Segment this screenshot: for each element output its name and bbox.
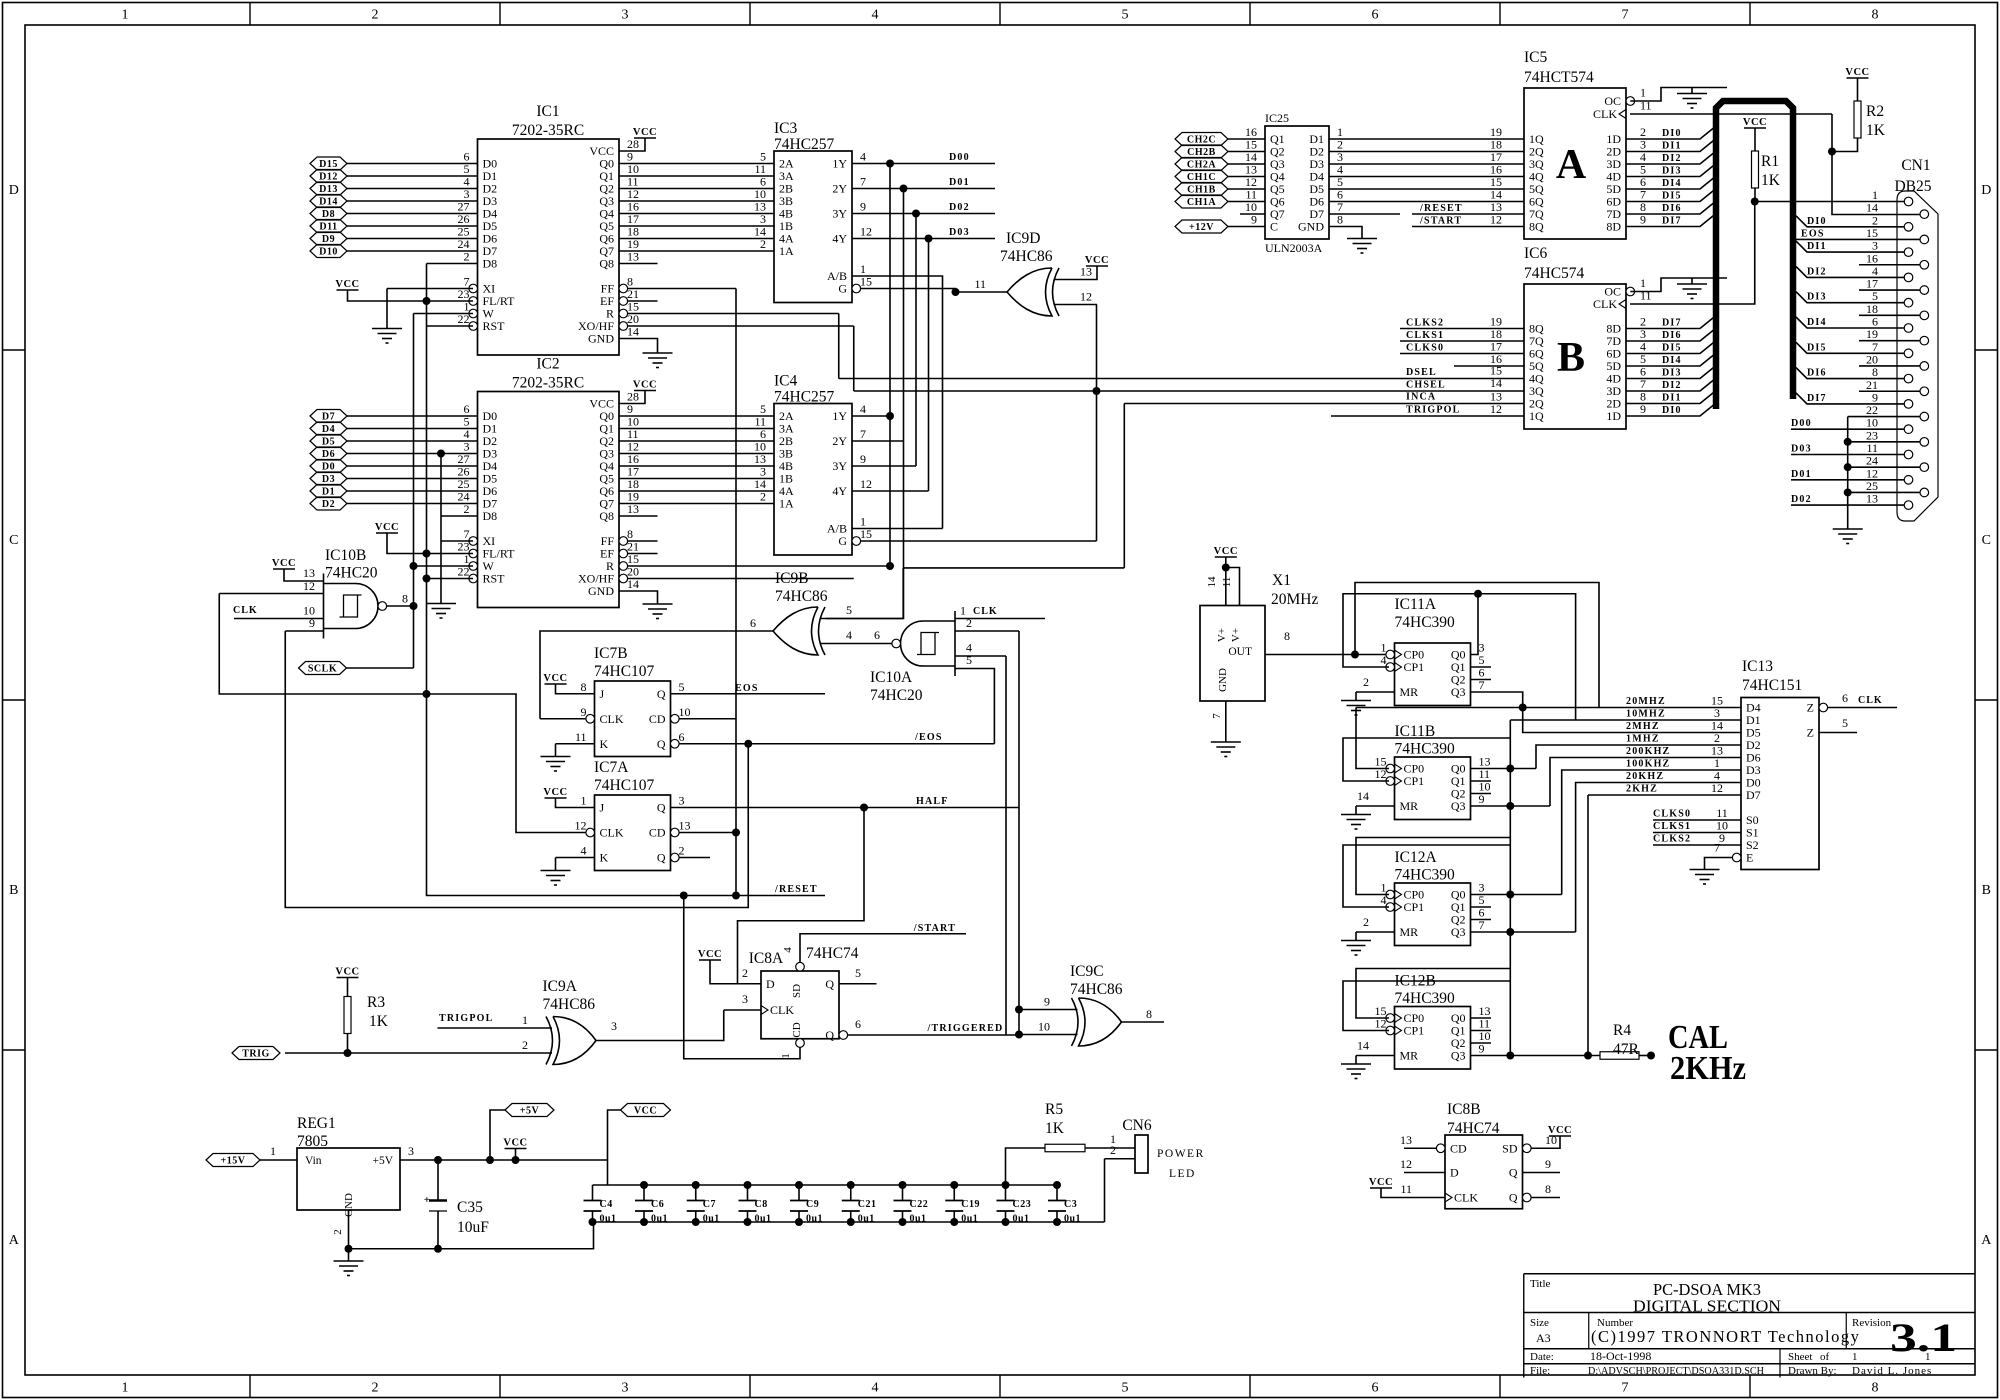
svg-text:CLKS0: CLKS0 [1406, 343, 1444, 354]
wire SCLK [347, 667, 414, 669]
wire IC10A pin1 CLK [955, 618, 1045, 620]
wire IC10B pin12 [219, 593, 323, 595]
svg-text:DIGITAL SECTION: DIGITAL SECTION [1633, 1297, 1781, 1316]
net label /START at IC5 [1419, 216, 1462, 227]
svg-text:D13: D13 [319, 184, 338, 195]
wire IC6 4D bus entry [1626, 366, 1716, 379]
IC6 pins [1529, 276, 1682, 423]
svg-text:Sheet: Sheet [1788, 1351, 1812, 1363]
IC8B pins [1400, 1133, 1557, 1205]
ground at IC2 GND [643, 604, 673, 619]
wire IC5 2D bus entry DI1 [1626, 139, 1716, 152]
IC9C labels [1070, 963, 1123, 998]
svg-text:1: 1 [122, 1381, 129, 1396]
svg-text:CLK: CLK [1858, 695, 1883, 706]
net label D02 at DB25 [1791, 494, 1812, 505]
junction cap top C21 [847, 1181, 855, 1189]
net flag D15 [310, 157, 347, 170]
svg-text:IC8A: IC8A [749, 950, 784, 967]
wire CLKS0 to IC13 [1653, 819, 1741, 821]
net flag D3 [310, 472, 347, 485]
wire IC5 8D bus entry DI7 [1626, 214, 1716, 227]
wire IC9C output [1122, 1021, 1165, 1023]
svg-text:D: D [1450, 1166, 1459, 1180]
junction W IC2 [410, 562, 418, 570]
junction FL/RT IC1 [423, 297, 431, 305]
svg-text:CLKS1: CLKS1 [1406, 330, 1444, 341]
junction 2KHZ R4 [1584, 1052, 1592, 1060]
svg-text:0u1: 0u1 [651, 1214, 668, 1225]
junction pin24 ground [1844, 463, 1852, 471]
svg-text:14: 14 [1490, 376, 1502, 390]
net label CLK [233, 605, 258, 616]
R1 labels [1761, 153, 1781, 189]
junction Q0 rail [1474, 590, 1482, 598]
svg-text:IC5: IC5 [1524, 49, 1548, 66]
wire IC12A MR [1356, 931, 1395, 933]
svg-text:IC6: IC6 [1524, 245, 1548, 262]
svg-text:CH1B: CH1B [1187, 185, 1216, 196]
wire IC11A Q0 up to rail [1471, 594, 1479, 655]
svg-text:1Q: 1Q [1529, 409, 1544, 423]
svg-text:12: 12 [860, 225, 872, 239]
net label DI2 [1807, 266, 1827, 277]
wire D02 to DB25 pin13 [1791, 504, 1904, 506]
svg-text:DI7: DI7 [1807, 393, 1827, 404]
svg-text:C35: C35 [457, 1199, 483, 1216]
wire IC8B Q stub [1523, 1172, 1561, 1174]
junction cap top C3 [1053, 1181, 1061, 1189]
IC4 labels [774, 373, 835, 406]
IC FIFO IC1 7202-35RC body [478, 139, 620, 355]
wire bus exit DI6 to DB25 [1796, 368, 1904, 379]
svg-text:4: 4 [872, 8, 879, 23]
IC13 labels [1742, 658, 1802, 694]
svg-text:Q: Q [825, 977, 834, 991]
wire 20MHz rail over IC11A [1355, 583, 1599, 708]
wire IC9D output to G chain [956, 291, 1008, 293]
junction RST IC2 [423, 575, 431, 583]
svg-text:/RESET: /RESET [1419, 203, 1463, 214]
svg-text:2KHz: 2KHz [1670, 1050, 1746, 1087]
wire IC2 Q1 to IC4 [619, 428, 774, 430]
svg-text:12: 12 [1711, 781, 1723, 795]
svg-text:D01: D01 [949, 177, 970, 188]
svg-text:0u1: 0u1 [1064, 1214, 1081, 1225]
svg-text:CLK: CLK [1593, 297, 1617, 311]
svg-text:DI1: DI1 [1662, 141, 1682, 152]
svg-text:CN1: CN1 [1901, 157, 1930, 174]
svg-text:1: 1 [1852, 1351, 1858, 1363]
svg-text:A: A [9, 1233, 20, 1248]
wire TRIGPOL to IC9A pin1 [438, 1027, 553, 1029]
svg-text:0u1: 0u1 [858, 1214, 875, 1225]
svg-text:47R: 47R [1613, 1041, 1640, 1058]
svg-text:0u1: 0u1 [961, 1214, 978, 1225]
svg-text:DI1: DI1 [1662, 393, 1682, 404]
XOR gate IC9D 74HC86 [1007, 268, 1059, 316]
wire VCC to IC2 FL/RT [387, 533, 473, 554]
net label INCA [1406, 392, 1436, 403]
junction Q3 IC12A [1506, 928, 1514, 936]
svg-text:74HC86: 74HC86 [543, 996, 596, 1013]
IC10B labels [325, 547, 378, 582]
svg-text:DI2: DI2 [1662, 380, 1682, 391]
svg-text:VCC: VCC [1369, 1177, 1393, 1188]
svg-text:D01: D01 [1791, 469, 1812, 480]
IC10A pin numbers [874, 604, 972, 668]
IC3 pins [754, 150, 872, 296]
wire /START to IC5 8Q [1412, 226, 1524, 228]
svg-text:9: 9 [860, 452, 866, 466]
svg-text:D9: D9 [322, 234, 335, 245]
ground decoupling rail bottom [594, 1221, 1105, 1223]
wire IC12A Q3 [1471, 931, 1576, 933]
svg-text:10: 10 [679, 705, 691, 719]
svg-text:David L. Jones: David L. Jones [1852, 1365, 1932, 1377]
wire IC9B pin4 from IC10A [820, 643, 892, 645]
IC mux IC3 74HC257 body [774, 151, 852, 303]
IC5 pins [1529, 86, 1682, 234]
IC25 pins [1245, 125, 1343, 234]
wire IC12B MR ground [1355, 1056, 1357, 1065]
wire CLK to IC10B pin10 [234, 618, 324, 620]
IC9D labels [1000, 230, 1053, 265]
svg-text:6: 6 [679, 730, 685, 744]
svg-text:D02: D02 [1791, 494, 1812, 505]
svg-text:/RESET: /RESET [774, 884, 818, 895]
svg-text:Revision: Revision [1852, 1317, 1892, 1329]
svg-text:MR: MR [1400, 925, 1419, 939]
svg-text:2: 2 [1363, 675, 1369, 689]
svg-text:DI5: DI5 [1662, 343, 1682, 354]
svg-text:OC: OC [1604, 94, 1621, 108]
svg-text:CP1: CP1 [1404, 774, 1425, 788]
wire D4 to IC2 D1 [347, 428, 478, 430]
IC counter IC12A 74HC390 body [1395, 883, 1471, 946]
VCC symbol at IC8B SD [1548, 1125, 1572, 1136]
net label CAL 2KHz [1668, 1019, 1746, 1087]
svg-text:4Y: 4Y [832, 232, 847, 246]
svg-text:C7: C7 [703, 1199, 716, 1210]
wire IC25 D2 to IC5 [1329, 151, 1524, 153]
wire bus exit DI2 to DB25 [1796, 266, 1904, 277]
net label DI0 [1807, 216, 1827, 227]
svg-text:Q3: Q3 [1451, 799, 1466, 813]
wire D03 to DB25 pin11 [1791, 454, 1904, 456]
svg-text:CD: CD [1450, 1141, 1467, 1155]
svg-text:Q3: Q3 [1451, 925, 1466, 939]
svg-text:1A: 1A [779, 497, 794, 511]
junction cap bottom C19 [950, 1218, 958, 1226]
svg-text:MR: MR [1400, 799, 1419, 813]
wire IC10B pin9 [285, 630, 323, 632]
wire IC8A Q stub [839, 983, 877, 985]
wire ground rail riser [349, 1222, 594, 1249]
net label /START [913, 923, 956, 934]
svg-text:DI6: DI6 [1662, 203, 1682, 214]
svg-text:7805: 7805 [297, 1133, 328, 1150]
IC11B pins [1357, 755, 1491, 814]
svg-text:2: 2 [332, 1229, 344, 1235]
wire D5 to IC2 D2 [347, 440, 478, 442]
svg-text:R2: R2 [1866, 103, 1884, 120]
svg-text:6: 6 [750, 616, 756, 630]
svg-text:Q: Q [1509, 1166, 1518, 1180]
IC9B pin numbers [750, 603, 852, 642]
XOR gate IC9B 74HC86 [773, 607, 825, 655]
wire HALF branch down [738, 808, 865, 984]
ground at IC12B MR [1341, 1064, 1371, 1079]
svg-text:74HC86: 74HC86 [775, 588, 828, 605]
svg-text:0u1: 0u1 [703, 1214, 720, 1225]
net flag CH1A [1175, 195, 1228, 208]
junction RST chain on loop [423, 690, 431, 698]
svg-text:11: 11 [575, 730, 587, 744]
wire D01 to DB25 pin12 [1791, 479, 1904, 481]
wire IC25 D6 to IC5 [1329, 201, 1524, 203]
svg-text:4: 4 [846, 628, 852, 642]
wire W net vertical [413, 314, 415, 669]
svg-text:Q: Q [657, 687, 666, 701]
junction cap bottom C23 [1002, 1218, 1010, 1226]
wire IC12A Q2 stub [1471, 919, 1492, 921]
wire IC11B Q1 stub [1471, 780, 1492, 782]
ground at IC6 OC [1677, 284, 1707, 299]
wire IC10A pin4 [955, 655, 1006, 657]
svg-text:TRIGPOL: TRIGPOL [439, 1013, 494, 1024]
net label CLKS0 [1406, 340, 1502, 354]
svg-text:Vin: Vin [305, 1155, 322, 1167]
wire IC5 CLK to R2 chain [1630, 113, 1832, 115]
wire IC11A Q2 stub [1471, 679, 1492, 681]
wire XI to ground [386, 289, 388, 329]
svg-text:20MHz: 20MHz [1271, 591, 1318, 608]
wire IC13 Z CLK [1828, 707, 1897, 709]
svg-text:2Y: 2Y [832, 434, 847, 448]
CN1 pin numbers [1866, 188, 1878, 506]
svg-text:IC13: IC13 [1742, 658, 1773, 675]
IC11B labels [1395, 723, 1456, 758]
junction VCC rail [512, 1156, 520, 1164]
svg-text:TRIGPOL: TRIGPOL [1406, 405, 1461, 416]
ground at IC1 GND [643, 353, 673, 368]
net flag D7 [310, 410, 347, 423]
net label TRIGPOL at IC9A [439, 1013, 494, 1024]
wire CHSEL vertical [853, 326, 855, 391]
svg-text:0u1: 0u1 [806, 1214, 823, 1225]
net flag +12V [1175, 220, 1228, 233]
svg-text:G: G [838, 534, 847, 548]
svg-text:D03: D03 [1791, 444, 1812, 455]
wire pins22-25 ground chain [1847, 417, 1849, 529]
svg-text:74HCT574: 74HCT574 [1524, 69, 1594, 86]
net flag CH2A [1175, 158, 1228, 171]
wire DB25 pin20 stub [1859, 365, 1920, 367]
svg-text:DI4: DI4 [1807, 317, 1827, 328]
wire IC7A Q HALF net [671, 807, 1020, 809]
svg-text:VCC: VCC [634, 1106, 657, 1117]
net flag D10 [310, 245, 347, 258]
junction Q3 IC11B [1506, 802, 1514, 810]
wire D6 to IC2 D3 [347, 453, 478, 455]
IC driver IC25 ULN2003A body [1265, 126, 1329, 239]
wire bus exit DI3 to DB25 [1796, 292, 1904, 303]
svg-text:A: A [1556, 142, 1587, 188]
junction cap bottom C22 [899, 1218, 907, 1226]
wire IC7B Q EOS [671, 693, 826, 695]
net flag D12 [310, 170, 347, 183]
svg-text:9: 9 [1044, 995, 1050, 1009]
VCC symbol at IC2 FL/RT [375, 522, 399, 533]
net label EOS [735, 683, 759, 694]
wire IC5 1D bus entry DI0 [1626, 126, 1716, 139]
wire 20MHZ down to IC11B CP0 [1356, 708, 1389, 769]
svg-text:VCC: VCC [335, 279, 359, 290]
wire IC6 5Q stub [1454, 365, 1524, 367]
VCC symbol at IC7A J [543, 787, 567, 798]
net label D00 [949, 152, 970, 163]
svg-text:DI7: DI7 [1662, 318, 1682, 329]
wire IC6 6D bus entry [1626, 341, 1716, 354]
wire D8/RST chain down to /RESET net [427, 264, 826, 896]
svg-text:18-Oct-1998: 18-Oct-1998 [1590, 1349, 1651, 1363]
wire CH1B to IC25 [1228, 188, 1265, 190]
svg-text:10: 10 [1038, 1020, 1050, 1034]
net label CLKS0 at IC13 [1653, 806, 1728, 820]
svg-text:C: C [1982, 533, 1991, 548]
wire IC9D pin12 [1054, 304, 1097, 306]
svg-text:D02: D02 [949, 202, 970, 213]
svg-text:14: 14 [1206, 576, 1218, 588]
wire IC11A Q1 stub [1471, 666, 1492, 668]
svg-text:7: 7 [860, 427, 866, 441]
pin number 15 [1490, 175, 1502, 189]
net flag D14 [310, 195, 347, 208]
wire IC1 Q7 to IC3 [619, 250, 774, 252]
wire IC2 Q5 to IC4 [619, 478, 774, 480]
wire REG1 +5V output rail [400, 1159, 608, 1161]
svg-text:DSEL: DSEL [1406, 367, 1437, 378]
wire +5V flag [490, 1110, 505, 1160]
svg-text:Drawn By:: Drawn By: [1788, 1365, 1837, 1377]
junction R2 [1828, 148, 1836, 156]
wire VCC to IC1 FL/RT [348, 290, 474, 301]
svg-text:IC9C: IC9C [1070, 963, 1104, 980]
wire IC2 Q4 to IC4 [619, 465, 774, 467]
net label D01 [949, 177, 970, 188]
wire pin4 vertical [1005, 656, 1007, 1035]
net label HALF [916, 796, 949, 807]
net flag D4 [310, 422, 347, 435]
svg-text:VCC: VCC [375, 522, 399, 533]
svg-text:CLK: CLK [973, 606, 998, 617]
svg-text:74HC257: 74HC257 [774, 136, 835, 153]
R3 labels [367, 994, 389, 1030]
svg-text:74HC107: 74HC107 [594, 663, 655, 680]
svg-text:V+: V+ [1230, 628, 1242, 642]
svg-text:File:: File: [1530, 1365, 1550, 1377]
svg-text:7202-35RC: 7202-35RC [512, 375, 584, 392]
svg-text:13: 13 [303, 566, 315, 580]
IC9A labels [543, 978, 596, 1013]
wire DSEL vertical [838, 314, 840, 379]
svg-text:R4: R4 [1613, 1022, 1631, 1039]
svg-text:1D: 1D [1606, 409, 1621, 423]
svg-text:/TRIGGERED: /TRIGGERED [927, 1023, 1004, 1034]
svg-text:11: 11 [1400, 1182, 1412, 1196]
svg-text:D03: D03 [949, 227, 970, 238]
svg-text:+12V: +12V [1189, 222, 1214, 233]
IC11A pins [1363, 641, 1485, 700]
svg-text:74HC390: 74HC390 [1395, 614, 1456, 631]
wire IC2 XO/HF stub [628, 578, 854, 580]
svg-text:VCC: VCC [1085, 255, 1109, 266]
svg-text:6: 6 [1372, 1381, 1379, 1396]
svg-text:CH2B: CH2B [1187, 147, 1216, 158]
junction cap bottom C6 [640, 1218, 648, 1226]
wire CH2B to IC25 [1228, 151, 1265, 153]
junction cap top C19 [950, 1181, 958, 1189]
svg-text:4Y: 4Y [832, 484, 847, 498]
svg-text:CH2A: CH2A [1187, 160, 1217, 171]
IC10B pin numbers [303, 566, 408, 630]
IC flip-flop IC8A 74HC74 body [761, 971, 839, 1039]
IC mux IC13 74HC151 body [1741, 698, 1819, 870]
svg-text:+: + [424, 1194, 430, 1206]
wire IC12B Q2 stub [1471, 1042, 1492, 1044]
svg-text:GND: GND [1217, 668, 1229, 692]
IC9C pin numbers [1038, 995, 1152, 1034]
svg-text:B: B [9, 883, 18, 898]
svg-text:4: 4 [860, 402, 866, 416]
svg-text:12: 12 [303, 579, 315, 593]
IC7B labels [594, 645, 655, 680]
VCC symbol at R3 [335, 967, 359, 978]
svg-text:2: 2 [742, 966, 748, 980]
wire K to ground [555, 744, 557, 757]
svg-text:2: 2 [372, 8, 379, 23]
wire IC11A Q3 to 2MHZ [1471, 692, 1742, 733]
svg-text:DI5: DI5 [1807, 342, 1827, 353]
svg-text:Z: Z [1807, 726, 1814, 740]
junction 20MHZ Q3 [1519, 704, 1527, 712]
wire IC11A MR ground [1355, 692, 1357, 701]
wire 100KHZ into IC13 D3 [1562, 770, 1741, 895]
VCC symbol at IC2 pin28 [633, 380, 657, 391]
svg-text:1: 1 [122, 8, 129, 23]
svg-text:D6: D6 [322, 449, 335, 460]
svg-text:B: B [1557, 335, 1585, 381]
svg-text:Q3: Q3 [1451, 1049, 1466, 1063]
svg-text:D2: D2 [322, 499, 335, 510]
svg-text:CD: CD [649, 826, 666, 840]
junction cap top C8 [744, 1181, 752, 1189]
ground at IC5 OC [1677, 94, 1707, 109]
pin number 12 [1490, 213, 1502, 227]
wire IC2 Q7 to IC4 [619, 503, 774, 505]
svg-text:C4: C4 [600, 1199, 613, 1210]
regulator REG1 7805 body [297, 1148, 400, 1210]
net flag D11 [310, 220, 347, 233]
wire VCC to R2 [1857, 78, 1859, 101]
wire CLKS0 to IC6 [1400, 353, 1524, 355]
IC6 labels [1524, 245, 1585, 381]
wire IC13 E to ground [1705, 858, 1733, 870]
ground at DB25 [1833, 529, 1863, 544]
svg-text:CLK: CLK [1454, 1191, 1478, 1205]
VCC symbol at R2 [1845, 67, 1869, 78]
